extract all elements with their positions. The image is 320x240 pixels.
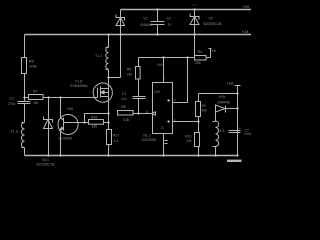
svg-text:R6: R6 [29,60,34,64]
svg-text:R8: R8 [121,105,125,109]
svg-text:8: 8 [163,77,165,81]
svg-text:R10: R10 [185,134,191,138]
svg-text:C4: C4 [122,92,126,96]
svg-text:+8: +8 [211,49,215,53]
svg-text:1N4448: 1N4448 [217,100,230,104]
svg-text:+24: +24 [242,29,250,34]
svg-text:V30: V30 [67,107,73,111]
svg-text:BZX55C1B: BZX55C1B [37,162,56,166]
svg-text:+18: +18 [227,82,233,86]
svg-text:4: 4 [146,110,148,114]
svg-text:150: 150 [92,125,98,129]
svg-text:220k: 220k [29,65,37,69]
svg-text:ZVN4206A: ZVN4206A [70,84,88,88]
svg-text:R7: R7 [33,90,38,94]
svg-text:V2: V2 [209,17,213,21]
svg-text:1M: 1M [127,73,132,77]
svg-text:V19: V19 [219,95,225,99]
svg-text:+: + [239,127,241,131]
svg-text:+20: +20 [242,4,250,9]
svg-text:V1.8: V1.8 [75,80,82,84]
svg-text:BC546B: BC546B [59,136,73,140]
svg-text:V1: V1 [143,17,147,21]
svg-text:20k: 20k [202,108,208,112]
svg-text:12: 12 [161,126,165,130]
svg-text:mini: mini [192,3,198,7]
svg-text:R4: R4 [198,50,203,54]
svg-text:T1.1: T1.1 [95,54,102,58]
svg-text:C2: C2 [10,97,15,101]
svg-text:20k: 20k [195,61,201,65]
svg-text:R9: R9 [202,104,206,108]
svg-text:10n: 10n [121,97,127,101]
svg-text:1.3: 1.3 [113,139,118,143]
svg-text:1M: 1M [33,101,38,105]
svg-text:OO: OO [154,90,160,94]
svg-text:1u: 1u [168,23,172,27]
svg-text:T1.3: T1.3 [11,130,18,134]
svg-text:R16: R16 [91,115,97,119]
svg-text:3.3k: 3.3k [123,118,130,122]
svg-text:BZX55C1B: BZX55C1B [204,22,223,26]
svg-text:+16: +16 [157,63,163,67]
svg-text:10k: 10k [186,139,192,143]
svg-text:R5: R5 [127,68,131,72]
svg-text:LM2903N: LM2903N [141,138,157,142]
svg-text:R17: R17 [113,134,119,138]
svg-text:100u: 100u [244,132,252,136]
svg-text:T1.2: T1.2 [217,129,224,133]
svg-text:1N4448: 1N4448 [140,23,153,27]
svg-text:270p: 270p [8,102,16,106]
svg-text:C1: C1 [167,17,172,21]
